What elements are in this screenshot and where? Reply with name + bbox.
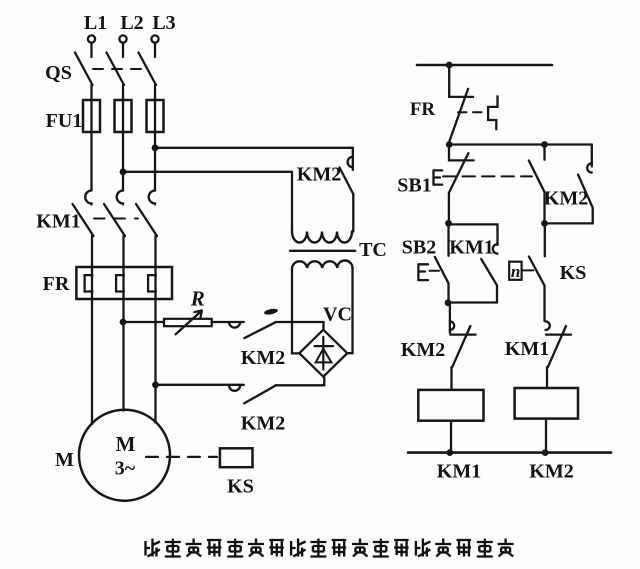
wire VC bottom [323,377,325,386]
contact KM1 selfhold [445,224,498,306]
speed switch KS [146,448,254,497]
terminal L1 [84,12,107,43]
wire TC secondary left [292,268,299,353]
FR heater pole 2 [116,267,124,299]
motor M 3~ [55,410,170,501]
FR heater pole 1 [85,267,93,299]
svg-text:SB1: SB1 [397,175,431,197]
wire VC top [322,322,324,330]
svg-text:FR: FR [410,99,436,120]
resistor R [123,287,212,335]
transformer TC [290,232,387,269]
contact KM2 selfhold [541,145,593,227]
svg-text:KM2: KM2 [544,188,588,210]
rectifier VC [299,304,352,377]
svg-text:FR: FR [43,273,70,295]
coil KM2 [515,388,578,483]
contactor KM1 pole 1 [73,191,94,268]
contact KM2 braking upper [212,308,324,369]
svg-text:R: R [190,287,205,311]
wire L1 [90,132,92,191]
QS linkage dashed [45,62,142,84]
coil KM1 [418,390,483,483]
contact KM2 transformer feed [297,148,354,232]
motor wire W [152,299,159,423]
contact FR control [410,65,498,145]
contact KM1 break [505,321,571,388]
FR heater pole 3 [148,267,156,299]
wire TC secondary right [347,268,352,353]
svg-text:KM2: KM2 [297,164,341,186]
fuse FU1 pole 2 [115,100,132,132]
svg-text:QS: QS [45,62,72,84]
svg-text:SB2: SB2 [402,237,436,259]
terminal L2 [119,12,143,43]
svg-text:FU1: FU1 [46,110,83,132]
svg-text:3~: 3~ [115,458,136,480]
svg-text:M: M [55,449,74,471]
motor wire U [91,299,93,424]
switch QS pole 1 [75,43,93,100]
svg-text:KM2: KM2 [529,461,573,483]
fuse FU1 pole 3 [46,100,164,132]
terminal L3 [151,12,175,43]
svg-text:KM1: KM1 [437,461,481,483]
svg-text:VC: VC [323,304,352,326]
node SB2 top [445,220,452,227]
button SB1 [397,145,532,224]
caption [146,539,514,557]
motor wire V [120,299,127,411]
svg-text:n: n [511,262,520,281]
svg-text:L2: L2 [120,12,143,34]
contact KS speed [509,223,586,321]
svg-text:KM2: KM2 [241,347,285,369]
thermal relay FR box [43,267,172,299]
top rail [417,62,552,69]
svg-text:KM1: KM1 [449,237,493,259]
wire L2 to transformer [120,132,292,232]
contact SB1 make [529,145,545,224]
svg-text:L3: L3 [152,12,175,34]
contactor KM1 pole 3 [136,191,157,268]
bottom rail [408,451,611,454]
wire L3 to braking feed [152,132,353,191]
button SB2 [402,223,449,302]
switch QS pole 2 [107,43,125,100]
svg-text:TC: TC [359,239,387,261]
fuse FU1 pole 1 [83,100,100,132]
contact KM2 braking lower [156,385,325,435]
contactor KM1 pole 2 [104,191,125,268]
svg-text:KM2: KM2 [401,339,445,361]
KM1 linkage dashed [36,211,138,233]
svg-text:KM1: KM1 [36,211,80,233]
contact KM2 break [401,303,476,390]
svg-text:L1: L1 [84,12,107,34]
svg-text:KM1: KM1 [505,338,549,360]
rail node line [446,141,592,148]
svg-text:KS: KS [560,262,587,284]
svg-text:M: M [116,432,136,456]
svg-text:KS: KS [227,476,254,498]
switch QS pole 3 [139,43,157,100]
svg-text:KM2: KM2 [241,413,285,435]
